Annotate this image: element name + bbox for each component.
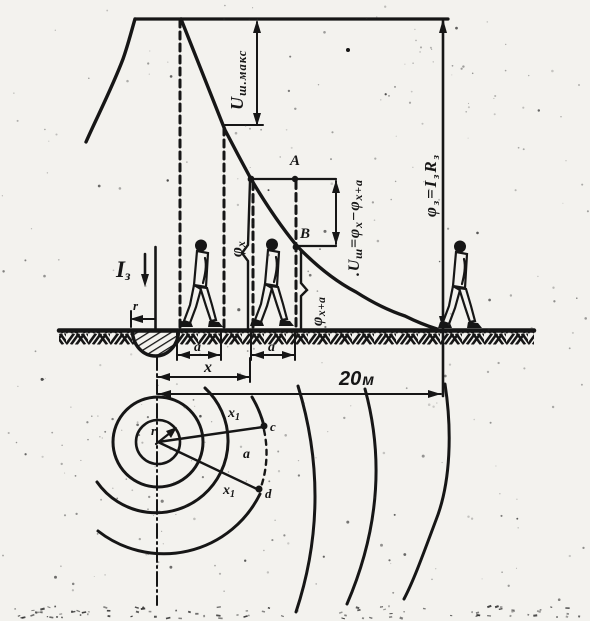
dashed ordinate A to ground bbox=[295, 181, 298, 329]
phi g dimension line bbox=[442, 21, 445, 396]
svg-text:c: c bbox=[270, 419, 276, 434]
svg-text:.Uш=φx−φx+a: .Uш=φx−φx+a bbox=[346, 179, 365, 276]
horizontal line at level A bbox=[251, 178, 336, 180]
Iz current arrow bbox=[144, 254, 147, 281]
hemispherical earth electrode bbox=[133, 331, 179, 356]
potential curve left branch bbox=[86, 19, 135, 142]
dimension 20m line bbox=[158, 393, 441, 395]
equipotential arc 4 upper bbox=[252, 397, 264, 426]
svg-text:x: x bbox=[203, 359, 212, 376]
Ush dimension line A-B bbox=[335, 181, 337, 244]
svg-text:a: a bbox=[243, 447, 250, 462]
dashed ordinate left of walking man 2 bbox=[252, 182, 255, 329]
equipotential arc 7 bbox=[404, 384, 449, 599]
node B bbox=[293, 244, 300, 251]
svg-text:a: a bbox=[194, 340, 201, 355]
svg-text:B: B bbox=[299, 226, 310, 242]
phi x+a brace line bbox=[301, 250, 307, 330]
centre axis dash-dot line bbox=[156, 356, 158, 605]
node d bbox=[256, 486, 263, 493]
svg-text:φx: φx bbox=[227, 241, 248, 257]
svg-text:x1: x1 bbox=[227, 406, 240, 423]
horizontal line at level B bbox=[297, 245, 336, 247]
radial line to c bbox=[158, 427, 263, 442]
phi x brace line bbox=[242, 181, 250, 330]
equipotential arc 4 lower bbox=[98, 494, 260, 554]
potential curve right branch bbox=[181, 19, 437, 329]
dimension a left: extension lines bbox=[176, 333, 178, 360]
Ush.maks tick to curve bbox=[225, 124, 263, 126]
equipotential circle 2 bbox=[113, 397, 203, 487]
node c bbox=[261, 423, 268, 430]
dashed ordinate at Um.maks point bbox=[223, 128, 226, 330]
ground hatch band bbox=[59, 332, 534, 345]
top reference line bbox=[135, 17, 448, 20]
node A bbox=[292, 176, 298, 182]
dimension a left: arrow line bbox=[177, 354, 221, 356]
svg-text:a: a bbox=[268, 340, 275, 355]
dimension a right: arrow line bbox=[251, 354, 295, 356]
dimension x line bbox=[157, 376, 250, 378]
equipotential circle 1 bbox=[136, 420, 180, 464]
svg-text:φз=IзRз: φз=IзRз bbox=[421, 153, 442, 217]
Ush.maks dimension line bbox=[256, 22, 258, 124]
equipotential arc 6 bbox=[347, 389, 376, 604]
dot on curve at x bbox=[248, 176, 255, 183]
electrode feed line bbox=[154, 247, 157, 356]
svg-text:x1: x1 bbox=[222, 483, 235, 500]
r dimension arrow bbox=[133, 318, 155, 320]
r radius arrow lower bbox=[156, 429, 175, 444]
svg-text:φx+a: φx+a bbox=[309, 297, 328, 326]
svg-text:A: A bbox=[289, 153, 300, 169]
dashed ordinate at curve maximum bbox=[179, 20, 182, 330]
svg-text:Uш.макс: Uш.макс bbox=[227, 50, 249, 110]
radial line to d bbox=[158, 442, 259, 490]
svg-text:r: r bbox=[133, 298, 139, 313]
equipotential arc 4 dashed step a bbox=[261, 430, 267, 487]
walking man 3 bbox=[438, 241, 482, 329]
svg-text:d: d bbox=[265, 486, 272, 501]
stray scan dot bbox=[346, 48, 350, 52]
svg-text:Iз: Iз bbox=[115, 257, 131, 284]
ground surface line bbox=[59, 328, 534, 333]
scan noise speckles extra bbox=[60, 21, 580, 575]
svg-text:20м: 20м bbox=[338, 368, 374, 390]
equipotential arc 5 bbox=[296, 386, 315, 612]
equipotential arc 3 bbox=[97, 388, 228, 513]
walking man 1 bbox=[179, 240, 223, 328]
dimension a right: extension lines bbox=[250, 333, 252, 360]
walking man 2 bbox=[250, 239, 294, 327]
